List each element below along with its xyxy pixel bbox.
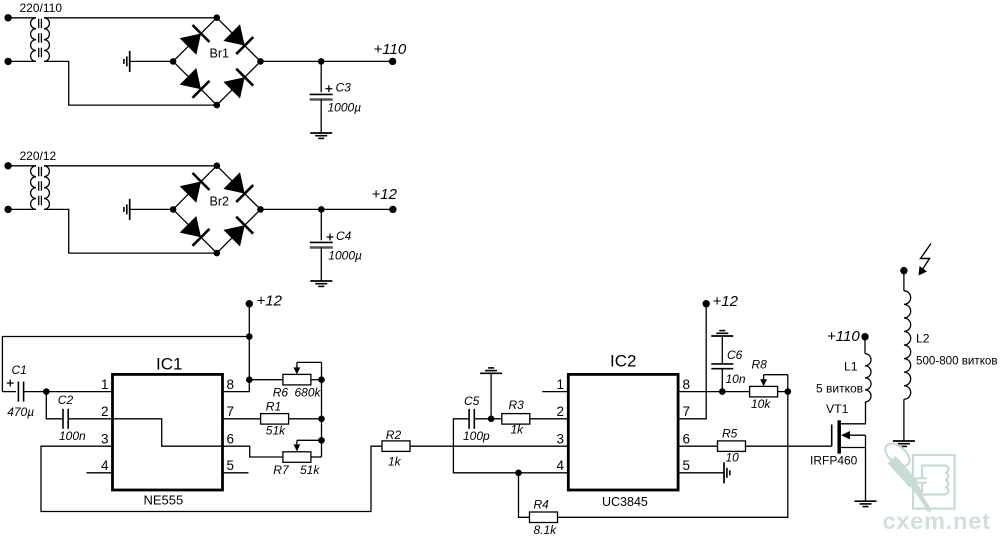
label C5 — [464, 394, 480, 408]
pin 8 IC2 — [683, 377, 691, 392]
pin 4 IC2 — [556, 458, 564, 473]
label 220/110 — [20, 1, 63, 15]
svg-text:1k: 1k — [388, 455, 402, 469]
diode Br1 top-right (top node to right node) — [217, 18, 261, 62]
pin 2 IC2 — [556, 404, 564, 419]
resistor R8 potentiometer body — [750, 386, 778, 397]
node C3 junction — [318, 58, 325, 65]
node Br2 left — [170, 206, 177, 213]
label IC2 — [610, 352, 636, 371]
svg-text:2: 2 — [101, 404, 109, 419]
terminal L2 top dot — [900, 267, 907, 274]
transistor VT1 gate plate — [831, 425, 833, 447]
node C5-R3 ground junction — [488, 416, 495, 423]
label C3 plus — [326, 85, 333, 92]
svg-text:4: 4 — [101, 458, 109, 473]
label +110 (L1) — [827, 328, 860, 345]
wire junction down to C2 — [46, 392, 63, 419]
svg-text:7: 7 — [683, 404, 691, 419]
svg-text:1: 1 — [101, 377, 109, 392]
svg-text:1000µ: 1000µ — [328, 101, 362, 115]
wire R3 to IC2 pin 2 — [530, 418, 569, 420]
svg-text:R6: R6 — [273, 385, 289, 399]
op-amp IC2 UC3845 box — [568, 374, 678, 490]
label R3 — [509, 398, 525, 412]
wire IC2 pin 6 to R5 — [678, 445, 718, 447]
label 220/12 — [20, 149, 57, 163]
capacitor C4 plates — [310, 242, 333, 247]
wire ground stem above C5 junction — [490, 373, 492, 419]
ground at Br1 AC left node — [124, 51, 130, 72]
label R7 — [273, 463, 290, 477]
label C6 — [727, 348, 743, 362]
svg-text:7: 7 — [227, 404, 235, 419]
label IC1 — [156, 355, 182, 374]
label C3 value 1000µ — [328, 101, 362, 115]
wire IC1 pin 5 stub — [223, 472, 249, 474]
wire R1 right to bus — [289, 418, 322, 420]
svg-text:C6: C6 — [727, 348, 743, 362]
wire C5 right to R3 — [474, 418, 502, 420]
svg-text:R1: R1 — [266, 399, 281, 413]
terminal +12 dot (IC2) — [703, 300, 710, 307]
diode Br2 bottom-left (left node to bottom node) — [173, 209, 217, 253]
node R7 wiper tee — [318, 437, 325, 444]
label R3 value 1k — [511, 423, 525, 437]
capacitor C3 plates — [310, 94, 333, 99]
wire C6 bottom lead — [721, 369, 723, 392]
svg-text:+12: +12 — [372, 186, 398, 203]
node R1 right junction — [318, 416, 325, 423]
svg-text:8.1k: 8.1k — [534, 523, 558, 537]
pin 6 IC2 — [683, 431, 691, 446]
inductor L1 coil — [865, 354, 871, 402]
resistor R3 — [502, 414, 530, 425]
svg-text:Br2: Br2 — [210, 195, 230, 209]
wire C1 to IC1 pin 1 — [24, 391, 113, 393]
wire C4 bottom lead — [320, 248, 322, 282]
inductor L2 coil — [904, 291, 911, 399]
pin 7 IC2 — [683, 404, 691, 419]
label C3 — [336, 81, 352, 95]
label L1 turns 5 витков — [816, 382, 863, 396]
label C2 — [58, 393, 74, 407]
diode Br1 top-left (left node to top node) — [173, 18, 217, 62]
label VT1 — [826, 402, 849, 416]
svg-text:3: 3 — [101, 431, 109, 446]
wire ground to Br1 left node — [130, 60, 173, 62]
svg-text:IC1: IC1 — [156, 355, 182, 374]
ground under C3 — [310, 133, 332, 138]
svg-text:1: 1 — [556, 377, 564, 392]
diode Br1 bottom-right (bottom node to right node) — [217, 61, 261, 105]
watermark cxem.net text — [883, 508, 991, 534]
ground under C4 — [310, 281, 332, 286]
svg-text:100p: 100p — [463, 429, 490, 443]
svg-text:C4: C4 — [336, 229, 352, 243]
svg-text:Br1: Br1 — [210, 47, 230, 61]
transformer T2 220/12 windings and core — [31, 166, 50, 210]
wire top rail C1 to +12 vertical — [2, 337, 249, 392]
node Br2 bottom — [214, 250, 221, 257]
node Br2 right — [257, 206, 264, 213]
pin 3 IC1 — [101, 431, 109, 446]
transistor VT1 channel bar — [837, 420, 841, 453]
node C4 junction — [318, 206, 325, 213]
svg-text:R4: R4 — [534, 498, 550, 512]
wire VT1 drain — [841, 402, 866, 424]
node +12 rail tee — [246, 333, 253, 340]
label +12 (top section) — [372, 186, 398, 203]
terminal +12 dot (IC1 rail) — [246, 300, 253, 307]
svg-text:8: 8 — [227, 377, 235, 392]
svg-text:IC2: IC2 — [610, 352, 636, 371]
node Br1 right — [257, 58, 264, 65]
node pin4 row R4 tee — [515, 470, 522, 477]
svg-text:+110: +110 — [827, 328, 860, 345]
wire IC1 pin 6 to R7 — [223, 446, 284, 457]
wire C3 bottom lead — [320, 100, 322, 134]
transformer T2 220/12 primary terminal dots — [4, 162, 11, 213]
label NE555 — [144, 493, 184, 508]
wire R6 left — [249, 379, 283, 381]
node R6 left tee — [246, 376, 253, 383]
label R8 — [752, 358, 768, 372]
ground under VT1 source — [855, 501, 877, 506]
label R2 value 1k — [388, 455, 402, 469]
wire C2 to IC1 pin 2 — [68, 418, 112, 420]
wiper arrow R7 — [294, 440, 322, 451]
wire T2 secondary top to Br2 top node — [44, 165, 217, 167]
svg-text:680k: 680k — [295, 385, 322, 399]
svg-text:R3: R3 — [509, 398, 525, 412]
label Br2 — [210, 195, 230, 209]
node Br1 bottom — [214, 102, 221, 109]
wire C5 left lead and down to pin4 row — [453, 419, 568, 473]
svg-text:5: 5 — [227, 458, 235, 473]
wire C3 top lead — [320, 61, 322, 92]
wire IC1 pin 7 to R1 — [223, 418, 261, 420]
wire R4 left to pin4 tee — [519, 473, 530, 518]
wire Br2 right node to +12 terminal — [261, 208, 393, 210]
resistor R6 potentiometer body — [283, 374, 311, 385]
wire T1 secondary bottom to Br1 bottom node — [44, 61, 217, 105]
transformer T1 220/110 primary terminal dots — [4, 14, 11, 65]
wire R2 to IC2 pin 3 — [410, 445, 568, 447]
wire ground to Br2 left node — [130, 208, 173, 210]
label IRFP460 — [810, 454, 858, 468]
svg-text:UC3845: UC3845 — [602, 495, 648, 509]
svg-text:500-800 витков: 500-800 витков — [916, 355, 998, 368]
pin 8 IC1 — [227, 377, 235, 392]
wire T2 primary leads — [8, 166, 36, 210]
svg-text:3: 3 — [556, 431, 564, 446]
label R2 — [386, 428, 402, 442]
svg-text:10: 10 — [726, 451, 740, 465]
ground under L2 — [893, 441, 915, 446]
label C2 value 100n — [59, 429, 86, 443]
node Br2 top — [214, 162, 221, 169]
svg-text:+12: +12 — [257, 293, 283, 310]
terminal +110 dot (L1) — [861, 333, 868, 340]
label +110 (top) — [374, 41, 407, 58]
svg-text:R2: R2 — [386, 428, 402, 442]
pin 1 IC1 — [101, 377, 109, 392]
wire T1 secondary top to Br1 top node — [44, 17, 217, 19]
wire L2 top lead — [903, 271, 905, 291]
pin 3 IC2 — [556, 431, 564, 446]
label R5 value 10 — [726, 451, 740, 465]
label +12 (IC1 rail) — [257, 293, 283, 310]
label R8 value 10k — [751, 397, 771, 411]
label Br1 — [210, 47, 230, 61]
wire +12 down to IC2 pin 7 — [678, 304, 706, 419]
svg-text:R8: R8 — [752, 358, 768, 372]
svg-text:4: 4 — [556, 458, 564, 473]
node C6 junction on pin8 wire — [719, 388, 726, 395]
node Br1 left — [170, 58, 177, 65]
wire C1 left lead — [2, 391, 16, 393]
capacitor C1 plates — [18, 382, 23, 402]
wiper arrow R6 — [294, 362, 322, 379]
wire R4 right to R8 wiper bus — [558, 392, 788, 518]
svg-text:R7: R7 — [273, 463, 290, 477]
label L2 — [916, 332, 930, 346]
svg-text:6: 6 — [683, 431, 691, 446]
pin 7 IC1 — [227, 404, 235, 419]
label C4 plus — [327, 234, 334, 241]
resistor R4 — [530, 512, 558, 523]
ground at Br2 AC left node — [124, 199, 130, 220]
label R1 value 51k — [266, 424, 286, 438]
diode Br1 bottom-left (left node to bottom node) — [173, 61, 217, 105]
transformer T1 220/110 windings and core — [31, 18, 50, 62]
ground above C5 junction (inverted) — [480, 368, 502, 373]
capacitor C5 plates — [469, 409, 474, 429]
svg-text:10n: 10n — [726, 372, 746, 386]
wire L2 bottom lead — [903, 399, 905, 441]
svg-text:R5: R5 — [722, 427, 738, 441]
terminal +12 dot (top section) — [389, 206, 396, 213]
wire T2 secondary bottom to Br2 bottom node — [44, 209, 217, 253]
svg-text:+12: +12 — [713, 293, 739, 310]
svg-text:220/110: 220/110 — [20, 1, 63, 15]
label R1 — [266, 399, 281, 413]
diode Br2 top-left (left node to top node) — [173, 166, 217, 210]
svg-text:51k: 51k — [300, 463, 320, 477]
wire R8 right — [778, 391, 788, 393]
svg-text:C5: C5 — [464, 394, 480, 408]
node R6 right junction — [318, 376, 325, 383]
wire R6 right — [311, 379, 322, 381]
wire IC1 pin 4 stub — [87, 472, 113, 474]
svg-text:C3: C3 — [336, 81, 352, 95]
label R4 value 8.1k — [534, 523, 558, 537]
wire VT1 body arrow line — [841, 431, 866, 439]
wiper arrow R8 — [760, 375, 788, 392]
ground at IC2 pin 5 — [724, 462, 730, 483]
label C5 value 100p — [463, 429, 490, 443]
label C4 value 1000µ — [328, 249, 362, 263]
svg-text:C2: C2 — [58, 393, 74, 407]
wire IC2 pin 8 to R8 — [678, 391, 750, 393]
resistor R7 potentiometer body — [283, 452, 311, 463]
label L1 — [844, 360, 858, 374]
wire C6 top lead — [721, 336, 723, 364]
svg-text:470µ: 470µ — [7, 405, 34, 419]
label R4 — [534, 498, 550, 512]
svg-text:10k: 10k — [751, 397, 771, 411]
svg-text:51k: 51k — [266, 424, 286, 438]
svg-text:NE555: NE555 — [144, 493, 184, 508]
node Br1 top — [214, 14, 221, 21]
wire right bus R6-R7 — [321, 380, 323, 457]
op-amp IC1 NE555 box — [113, 374, 223, 490]
svg-text:C1: C1 — [12, 363, 27, 377]
terminal +110 dot — [389, 58, 396, 65]
resistor R1 — [261, 414, 289, 425]
label +12 (IC2) — [713, 293, 739, 310]
wire Br1 right node to +110 terminal — [261, 60, 393, 62]
label C4 — [336, 229, 352, 243]
svg-text:+110: +110 — [374, 41, 407, 58]
svg-text:cxem.net: cxem.net — [883, 508, 991, 534]
label R6 — [273, 385, 289, 399]
capacitor C2 plates — [63, 409, 68, 429]
svg-text:100n: 100n — [59, 429, 86, 443]
node C1-C2 junction — [43, 388, 50, 395]
pin 4 IC1 — [101, 458, 109, 473]
wire IC2 pin 5 to ground — [678, 472, 724, 474]
label C1 value 470µ — [7, 405, 34, 419]
svg-text:1000µ: 1000µ — [328, 249, 362, 263]
label C1 — [12, 363, 27, 377]
pin 5 IC1 — [227, 458, 235, 473]
pin 2 IC1 — [101, 404, 109, 419]
label UC3845 — [602, 495, 648, 509]
svg-text:5 витков: 5 витков — [816, 382, 863, 396]
node R8 right junction — [785, 388, 792, 395]
svg-text:5: 5 — [683, 458, 691, 473]
lightning discharge arrow — [919, 244, 932, 276]
diode Br2 bottom-right (bottom node to right node) — [217, 209, 261, 253]
svg-text:1k: 1k — [511, 423, 525, 437]
pin 6 IC1 — [227, 431, 235, 446]
wire C4 top lead — [320, 209, 322, 240]
svg-text:6: 6 — [227, 431, 235, 446]
capacitor C6 plates — [711, 364, 733, 369]
wire VT1 source — [841, 435, 866, 501]
pin 5 IC2 — [683, 458, 691, 473]
wire R7 right to bus — [311, 456, 322, 458]
wire T1 primary leads — [8, 18, 36, 62]
resistor R2 — [382, 441, 410, 452]
svg-text:8: 8 — [683, 377, 691, 392]
svg-text:VT1: VT1 — [826, 402, 849, 416]
pin 1 IC2 — [556, 377, 564, 392]
diode Br2 top-right (top node to right node) — [217, 166, 261, 210]
svg-text:L2: L2 — [916, 332, 930, 346]
label C1 plus — [7, 380, 14, 387]
wire R5 to VT1 gate — [745, 445, 832, 447]
svg-text:L1: L1 — [844, 360, 858, 374]
svg-text:IRFP460: IRFP460 — [810, 454, 858, 468]
wire IC1 pin 3 to bottom rail — [41, 446, 382, 511]
watermark cxem.net logo icon — [881, 439, 954, 512]
resistor R5 — [718, 441, 746, 452]
svg-text:220/12: 220/12 — [20, 149, 57, 163]
label R5 — [722, 427, 738, 441]
label L2 turns 500-800 витков — [916, 355, 998, 368]
wire L1 top lead — [864, 337, 866, 354]
wire +12 vertical to IC1 pin 8 — [223, 304, 250, 392]
label R6 value 680k — [295, 385, 322, 399]
svg-text:2: 2 — [556, 404, 564, 419]
wire IC2 pin 1 stub — [542, 391, 568, 393]
ground above C6 (inverted) — [711, 331, 733, 336]
label R7 value 51k — [300, 463, 320, 477]
wire IC1 internal pin2 to pin6 — [113, 419, 223, 446]
label C6 value 10n — [726, 372, 746, 386]
